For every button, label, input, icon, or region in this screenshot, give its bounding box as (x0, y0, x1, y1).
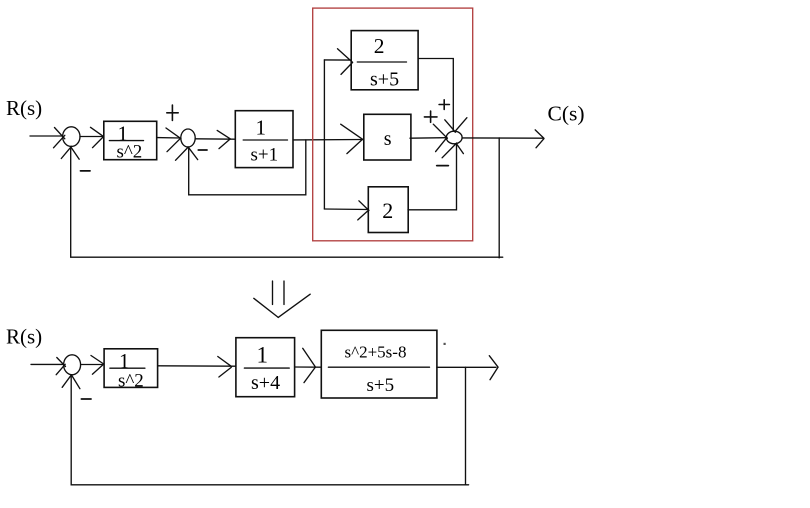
wire branch to block G3 (324, 59, 351, 61)
arrowhead into S3 (bottom) (442, 143, 463, 158)
wire G7 to block G8 (295, 366, 321, 368)
wire G4 to S3 (left) (410, 137, 446, 140)
svg-text:2: 2 (374, 34, 385, 58)
wire outer feedback from output down and back to S1 (71, 138, 503, 259)
minus sign at S1 (81, 170, 91, 172)
arrowhead into S4 (bottom, feedback) (62, 375, 80, 389)
arrowhead into G8 (303, 348, 316, 382)
summing junction S4 (64, 355, 81, 375)
minus sign at S4 (81, 398, 91, 400)
svg-text:1: 1 (257, 343, 269, 368)
svg-text:s+5: s+5 (367, 375, 395, 396)
svg-text:s^2+5s-8: s^2+5s-8 (345, 342, 407, 361)
red grouping rectangle (313, 8, 473, 241)
block G4 s (364, 114, 411, 160)
block G8 (s^2+5s-8)/(s+5) (321, 330, 437, 398)
wire G3 output to summing junction S3 (top) (418, 59, 453, 132)
wire G8 output (437, 366, 496, 368)
node branch point vertical (323, 60, 325, 209)
arrowhead at C(s) output (535, 130, 544, 148)
block G2 1/(s+1) (235, 111, 293, 168)
label R(s) input top (6, 96, 42, 120)
summing junction S2 (181, 129, 195, 147)
svg-text:R(s): R(s) (6, 96, 42, 120)
wire S2 to block G2 (195, 138, 235, 140)
arrowhead into S2 (bottom, inner feedback) (176, 147, 198, 161)
svg-text:s+5: s+5 (370, 69, 399, 91)
svg-text:1: 1 (119, 349, 130, 373)
arrowhead into G4 (341, 124, 363, 153)
svg-text:s+1: s+1 (251, 145, 279, 166)
svg-text:1: 1 (256, 115, 267, 139)
wire G6 to block G7 (158, 365, 236, 367)
svg-text:s: s (384, 128, 392, 150)
plus sign above S3 (439, 100, 449, 110)
svg-text:C(s): C(s) (548, 102, 585, 126)
minus sign below S3 (437, 165, 449, 167)
arrowhead into G5 (358, 201, 369, 220)
arrowhead into G2 (217, 130, 230, 148)
plus sign above S2 (167, 105, 178, 120)
wire S1 to block G1 (80, 136, 104, 138)
arrowhead into S3 (left) (433, 124, 447, 151)
block G3 2/(s+5) (351, 31, 418, 91)
arrowhead into G7 (218, 357, 232, 378)
arrowhead at bottom output (489, 356, 498, 380)
wire branch to block G5 (324, 208, 367, 211)
label C(s) output top (548, 102, 585, 126)
wire bottom feedback from output down and back to S4 (71, 367, 468, 485)
svg-text:s+4: s+4 (251, 372, 280, 394)
svg-text:R(s): R(s) (6, 324, 42, 348)
arrowhead into S4 (left) (56, 358, 65, 375)
svg-text:s^2: s^2 (117, 142, 143, 163)
wire input R(s) to summing junction S1 (30, 135, 63, 137)
svg-text:s^2: s^2 (118, 371, 144, 392)
arrowhead into G6 (91, 356, 104, 375)
stray dot (444, 343, 446, 345)
plus sign left of S3 (424, 111, 437, 122)
block G6 1/s^2 (104, 349, 158, 392)
wire G1 to summing junction S2 (157, 137, 181, 139)
wire inner feedback from G2 output down and back to S2 (189, 140, 306, 195)
block G5 2 (368, 187, 408, 233)
summing junction S3 (446, 131, 462, 144)
wire S4 to block G6 (81, 364, 104, 366)
label R(s) input bottom (6, 324, 42, 348)
arrowhead into G1 (91, 127, 104, 147)
wire input R(s) to summing junction S4 (31, 363, 64, 365)
arrowhead into S1 (left) (54, 128, 65, 148)
block G7 1/(s+4) (236, 338, 295, 397)
arrowhead into S1 (bottom, feedback) (61, 146, 79, 159)
summing junction S1 (63, 127, 80, 147)
wire S3 output to C(s) (462, 137, 543, 139)
arrowhead into S3 (top) (445, 118, 467, 133)
wire G5 output to S3 (bottom) (408, 144, 457, 210)
wire G2 output to branch and into block G4 (293, 139, 363, 141)
block G1 1/s^2 (104, 121, 157, 162)
svg-text:2: 2 (382, 198, 393, 223)
minus sign right of S2 (198, 149, 207, 151)
arrowhead into G3 (338, 49, 353, 75)
arrowhead into S2 (left) (166, 128, 181, 152)
implication double arrow between diagrams (254, 281, 310, 317)
